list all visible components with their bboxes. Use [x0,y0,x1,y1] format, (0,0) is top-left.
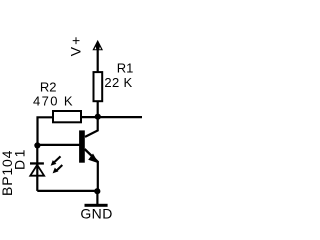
svg-text:GND: GND [80,206,112,222]
transistor Q1 emitter arrow [88,154,98,164]
svg-text:22 K: 22 K [104,75,132,90]
resistor R2 [53,111,81,122]
resistor R1 [94,72,103,101]
photodiode D1 cathode bar [30,162,44,164]
ground bar [85,204,108,207]
svg-text:470 K: 470 K [33,93,74,108]
svg-text:D1: D1 [12,147,28,170]
light arrow 1 [54,156,61,162]
wire bottom rail [37,190,97,192]
wire V+ stem [97,47,99,73]
photodiode D1 triangle [30,165,44,176]
wire base [37,144,80,146]
wire collector rail [81,116,143,118]
power arrow V+ [92,40,103,50]
transistor Q1 emitter [85,149,98,162]
transistor Q1 collector [85,117,98,137]
light arrow 2 [57,165,63,171]
transistor Q1 base bar [79,130,85,162]
wire R1 bottom to collector junction [97,101,99,118]
wire photodiode branch [36,145,38,191]
wire emitter down [97,161,99,191]
junction base node [34,142,40,148]
svg-text:V+: V+ [67,34,83,56]
junction collector node [95,114,101,120]
wire ground lead [96,191,98,204]
wire R2 left to base junction [38,117,55,145]
svg-text:R1: R1 [117,61,134,76]
junction emitter node [94,188,100,194]
